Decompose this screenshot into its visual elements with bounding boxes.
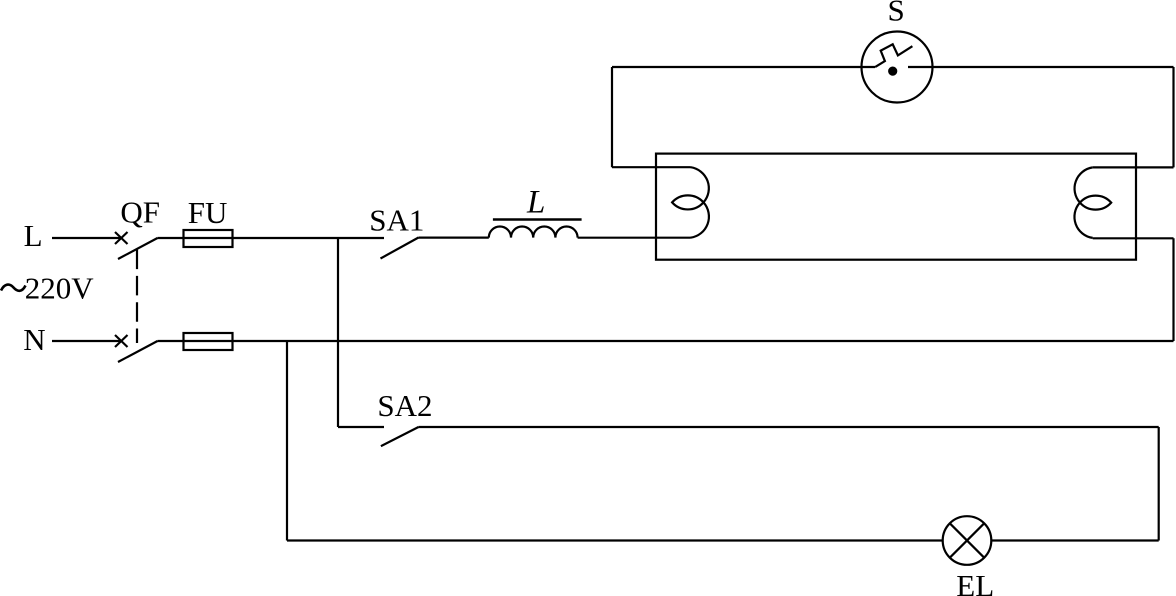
svg-text:EL: EL xyxy=(956,568,994,596)
wire SA2 branch riser xyxy=(337,238,339,427)
lamp EL cross xyxy=(950,523,984,557)
wire SA1 to ballast xyxy=(419,237,489,239)
wire SA2 to right drop xyxy=(419,426,1159,428)
starter S circle xyxy=(862,32,933,103)
wire EL line left xyxy=(287,539,943,541)
breaker QF contact cross pole 1 xyxy=(115,232,128,244)
lamp EL circle xyxy=(943,516,992,565)
svg-text:S: S xyxy=(888,0,905,28)
wire right drop to N line xyxy=(1172,238,1174,341)
wire right drop SA2 to EL line xyxy=(1158,427,1160,541)
fuse FU pole 2 xyxy=(184,333,233,350)
fuse FU pole 1 xyxy=(184,230,233,247)
wire N line xyxy=(158,340,1174,342)
wire SA2 left xyxy=(338,426,384,428)
wire right filament bottom xyxy=(1093,237,1174,239)
fluorescent tube body xyxy=(656,154,1136,260)
inductor L core bar xyxy=(493,218,582,221)
svg-text:L: L xyxy=(24,218,43,253)
wire right drop to filament top xyxy=(1172,67,1174,167)
wire right filament top xyxy=(1093,166,1174,168)
right filament xyxy=(1074,167,1111,238)
wire left filament top xyxy=(612,166,691,168)
switch SA1 blade xyxy=(381,238,419,259)
svg-text:SA1: SA1 xyxy=(369,202,424,237)
wire N input xyxy=(52,340,121,342)
wire ballast to lamp left filament xyxy=(578,237,691,239)
svg-text:L: L xyxy=(526,185,545,221)
breaker QF blade pole 2 xyxy=(118,341,158,362)
switch SA2 blade xyxy=(381,427,419,446)
svg-text:FU: FU xyxy=(188,195,228,230)
breaker QF blade pole 1 xyxy=(118,238,158,259)
left filament xyxy=(672,167,709,238)
wire left riser to starter line xyxy=(611,67,613,167)
wire L line from breaker to SA1 xyxy=(158,237,385,239)
svg-text:QF: QF xyxy=(120,194,160,229)
breaker QF linkage (dashed) xyxy=(136,250,138,343)
wire starter line left xyxy=(612,66,875,68)
svg-text:N: N xyxy=(23,322,45,357)
wire L input xyxy=(52,237,121,239)
starter S fixed contact dot xyxy=(888,67,897,76)
wire starter line right xyxy=(908,66,1174,68)
starter S bimetal strip xyxy=(875,44,912,67)
wire EL branch riser from N xyxy=(286,341,288,541)
label ~220V source xyxy=(1,285,26,291)
svg-text:SA2: SA2 xyxy=(377,388,432,423)
svg-text:220V: 220V xyxy=(25,271,95,306)
breaker QF contact cross pole 2 xyxy=(115,335,128,347)
inductor L ballast coil xyxy=(489,227,578,238)
wire EL line right xyxy=(991,539,1158,541)
